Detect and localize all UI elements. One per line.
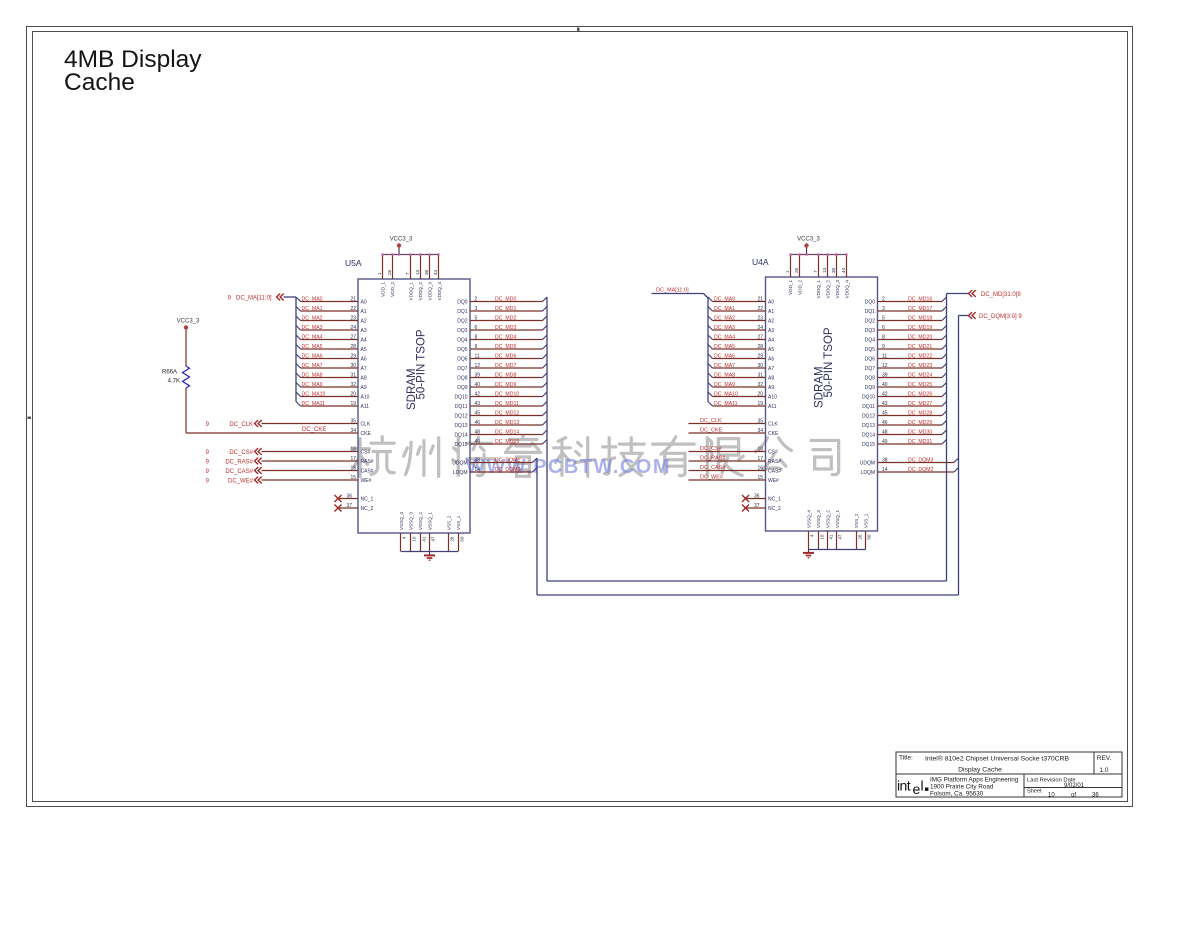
svg-text:VSSQ_4: VSSQ_4 xyxy=(399,512,404,530)
svg-text:DQ6: DQ6 xyxy=(865,357,876,363)
svg-text:VSSQ_2: VSSQ_2 xyxy=(825,510,830,528)
svg-text:2: 2 xyxy=(882,296,885,302)
svg-text:VDDQ_2: VDDQ_2 xyxy=(825,280,830,299)
svg-text:3: 3 xyxy=(475,306,478,312)
svg-text:35: 35 xyxy=(350,418,356,424)
svg-text:l: l xyxy=(921,778,924,794)
svg-text:CAS#: CAS# xyxy=(361,469,374,475)
svg-text:DC_MD31: DC_MD31 xyxy=(908,439,932,445)
svg-text:VSS_2: VSS_2 xyxy=(446,515,451,530)
wire U4A pin 29 A6 net DC_MA6 xyxy=(708,353,766,359)
wire U4A pin 21 A0 net DC_MA0 xyxy=(708,296,766,302)
svg-text:7: 7 xyxy=(405,272,410,275)
svg-text:DC_MA2: DC_MA2 xyxy=(714,315,735,321)
power VCC3_3 U4A xyxy=(797,237,820,255)
svg-text:Display Cache: Display Cache xyxy=(958,767,1002,774)
off-page connector DC_WE# xyxy=(206,477,262,485)
wire U5A pin 24 A3 net DC_MA3 xyxy=(296,325,358,331)
wire U5A pin 43 DQ11 net DC_MD11 xyxy=(470,401,547,407)
svg-text:DC_MA2: DC_MA2 xyxy=(302,315,323,321)
svg-text:Folsom, Ca. 95630: Folsom, Ca. 95630 xyxy=(930,791,984,798)
wire U5A pin 5 DQ2 net DC_MD2 xyxy=(470,315,547,321)
svg-text:DC_RAS#: DC_RAS# xyxy=(225,459,253,465)
wire U5A pin 45 DQ12 net DC_MD12 xyxy=(470,410,547,416)
svg-text:DC_DQM3: DC_DQM3 xyxy=(908,457,933,463)
wire U4A pin 39 DQ8 net DC_MD24 xyxy=(878,372,947,378)
svg-text:45: 45 xyxy=(882,410,888,416)
svg-text:A1: A1 xyxy=(361,309,367,315)
no-connect U5A pin 36 NC_1 xyxy=(335,493,359,502)
svg-text:VDDQ_2: VDDQ_2 xyxy=(418,282,423,301)
power VCC3_3 U5A xyxy=(390,237,413,255)
svg-text:16: 16 xyxy=(757,465,763,471)
svg-text:DC_WE#: DC_WE# xyxy=(700,475,724,481)
wire U5A pin 21 A0 net DC_MA0 xyxy=(296,296,358,302)
svg-text:DC_MD5: DC_MD5 xyxy=(495,344,516,350)
svg-text:38: 38 xyxy=(882,457,888,463)
svg-text:1: 1 xyxy=(377,272,382,275)
svg-text:13: 13 xyxy=(822,267,827,273)
svg-text:15: 15 xyxy=(757,475,763,481)
svg-text:VSS_2: VSS_2 xyxy=(854,513,859,528)
svg-text:DQ12: DQ12 xyxy=(454,414,467,420)
svg-text:NC_2: NC_2 xyxy=(361,506,374,512)
svg-text:Cache: Cache xyxy=(64,69,135,96)
svg-text:DC_MD4: DC_MD4 xyxy=(495,334,516,340)
svg-text:DC_MD16: DC_MD16 xyxy=(908,296,932,302)
svg-text:36: 36 xyxy=(346,493,352,499)
svg-text:38: 38 xyxy=(475,457,481,463)
wire U5A pin 18 net DC_CS# xyxy=(262,446,359,452)
wire U4A pin 8 DQ4 net DC_MD20 xyxy=(878,334,947,340)
svg-text:22: 22 xyxy=(350,306,356,312)
svg-text:VSSQ_1: VSSQ_1 xyxy=(427,512,432,530)
svg-text:DC_WE#: DC_WE# xyxy=(228,478,254,484)
svg-text:20: 20 xyxy=(757,391,763,397)
svg-text:1: 1 xyxy=(785,270,790,273)
svg-text:35: 35 xyxy=(757,418,763,424)
svg-text:A5: A5 xyxy=(768,347,774,353)
svg-text:17: 17 xyxy=(757,456,763,462)
wire U5A pin 29 A6 net DC_MA6 xyxy=(296,353,358,359)
svg-text:A9: A9 xyxy=(361,385,367,391)
svg-text:A6: A6 xyxy=(768,357,774,363)
svg-text:48: 48 xyxy=(475,429,481,435)
svg-text:DQ15: DQ15 xyxy=(454,442,467,448)
wire U5A pin 12 DQ7 net DC_MD7 xyxy=(470,363,547,369)
wire U5A pin 17 net DC_RAS# xyxy=(262,456,359,462)
svg-text:DC_MA5: DC_MA5 xyxy=(302,344,323,350)
svg-text:12: 12 xyxy=(882,363,888,369)
svg-text:RAS#: RAS# xyxy=(361,459,374,465)
svg-text:A5: A5 xyxy=(361,347,367,353)
svg-text:DC_MD30: DC_MD30 xyxy=(908,429,932,435)
svg-text:24: 24 xyxy=(757,325,763,331)
wire U5A pin 11 DQ6 net DC_MD6 xyxy=(470,353,547,359)
svg-text:DQ7: DQ7 xyxy=(865,366,876,372)
svg-text:DQ6: DQ6 xyxy=(457,357,468,363)
svg-text:26: 26 xyxy=(387,269,392,275)
svg-text:e: e xyxy=(913,781,921,797)
svg-text:DC_CAS#: DC_CAS# xyxy=(225,469,253,475)
svg-text:41: 41 xyxy=(422,536,427,542)
svg-text:VSSQ_3: VSSQ_3 xyxy=(816,510,821,528)
wire U5A pin 30 A7 net DC_MA7 xyxy=(296,363,358,369)
svg-text:DQ2: DQ2 xyxy=(865,319,876,325)
svg-text:VDDQ_4: VDDQ_4 xyxy=(437,282,442,301)
svg-text:LDQM: LDQM xyxy=(453,470,467,476)
svg-text:VDDQ_3: VDDQ_3 xyxy=(835,280,840,299)
svg-text:18: 18 xyxy=(350,446,356,452)
svg-text:VCC3_3: VCC3_3 xyxy=(177,319,200,325)
svg-text:50-PIN TSOP: 50-PIN TSOP xyxy=(823,327,835,397)
wire U4A pin 2 DQ0 net DC_MD16 xyxy=(878,296,947,302)
wire U4A pin 48 DQ14 net DC_MD30 xyxy=(878,429,947,435)
wire U5A pin 9 DQ5 net DC_MD5 xyxy=(470,344,547,350)
svg-text:DC_MD18: DC_MD18 xyxy=(908,315,932,321)
wire U5A pin 39 DQ8 net DC_MD8 xyxy=(470,372,547,378)
svg-text:DC_MD2: DC_MD2 xyxy=(495,315,516,321)
svg-text:19: 19 xyxy=(350,401,356,407)
svg-text:50: 50 xyxy=(460,536,465,542)
svg-text:14: 14 xyxy=(475,467,481,473)
svg-text:DC_MD24: DC_MD24 xyxy=(908,372,932,378)
svg-text:DC_MD1: DC_MD1 xyxy=(495,306,516,312)
bus DC_DQM U5A vertical+bottom run xyxy=(537,458,959,595)
svg-text:23: 23 xyxy=(757,315,763,321)
off-page connector DC_CS# xyxy=(206,448,262,456)
svg-text:CKE: CKE xyxy=(768,431,779,437)
svg-text:DC_MA4: DC_MA4 xyxy=(302,334,323,340)
svg-text:A11: A11 xyxy=(361,404,370,410)
svg-text:LDQM: LDQM xyxy=(861,470,875,476)
svg-text:DQ14: DQ14 xyxy=(862,433,875,439)
svg-text:A0: A0 xyxy=(768,300,774,306)
svg-text:18: 18 xyxy=(757,446,763,452)
bus DC_MA[11:0] to U5A xyxy=(295,297,297,402)
svg-text:DQ5: DQ5 xyxy=(457,347,468,353)
svg-text:DC_CKE: DC_CKE xyxy=(700,428,723,434)
svg-text:DC_MD22: DC_MD22 xyxy=(908,353,932,359)
svg-text:RAS#: RAS# xyxy=(768,459,781,465)
svg-text:DC_MD26: DC_MD26 xyxy=(908,391,932,397)
svg-text:32: 32 xyxy=(757,382,763,388)
svg-text:40: 40 xyxy=(882,382,888,388)
off-page connector DC_DQM[3:0] xyxy=(959,312,1023,320)
svg-text:47: 47 xyxy=(838,534,843,540)
svg-text:47: 47 xyxy=(431,536,436,542)
svg-text:31: 31 xyxy=(350,372,356,378)
svg-text:Sheet: Sheet xyxy=(1027,789,1042,795)
svg-text:DC_MA7: DC_MA7 xyxy=(714,363,735,369)
svg-text:43: 43 xyxy=(475,401,481,407)
svg-text:DQ13: DQ13 xyxy=(454,423,467,429)
svg-text:40: 40 xyxy=(475,382,481,388)
svg-text:A7: A7 xyxy=(361,366,367,372)
svg-text:15: 15 xyxy=(350,475,356,481)
svg-text:A0: A0 xyxy=(361,300,367,306)
svg-text:A4: A4 xyxy=(361,338,367,344)
svg-text:29: 29 xyxy=(350,353,356,359)
svg-text:of: of xyxy=(1071,793,1076,799)
svg-text:DC_CLK: DC_CLK xyxy=(700,418,722,424)
wire U5A pin 35 CLK net DC_CLK xyxy=(262,418,359,424)
svg-text:DC_MA[11:0]: DC_MA[11:0] xyxy=(656,288,689,294)
svg-text:A10: A10 xyxy=(361,395,370,401)
no-connect U4A pin 36 NC_1 xyxy=(742,493,766,502)
svg-text:17: 17 xyxy=(350,456,356,462)
svg-text:VCC3_3: VCC3_3 xyxy=(797,237,820,243)
svg-text:37: 37 xyxy=(346,503,352,509)
svg-text:DC_MD12: DC_MD12 xyxy=(495,410,519,416)
svg-text:28: 28 xyxy=(350,344,356,350)
wire U5A pin 20 A10 net DC_MA10 xyxy=(296,391,358,397)
svg-text:DC_CS#: DC_CS# xyxy=(700,446,723,452)
wire U4A pin 31 A8 net DC_MA8 xyxy=(708,372,766,378)
svg-text:DC_MD27: DC_MD27 xyxy=(908,401,932,407)
bus DC_DQM vertical at far right xyxy=(958,316,960,596)
wire U5A pin 14 LDQM net DC_DQM0 xyxy=(470,467,537,473)
svg-text:VSS_1: VSS_1 xyxy=(456,515,461,530)
wire U4A pin 49 DQ15 net DC_MD31 xyxy=(878,439,947,445)
svg-text:DC_MD19: DC_MD19 xyxy=(908,325,932,331)
svg-text:DC_CS#: DC_CS# xyxy=(229,450,253,456)
resistor R66A 4.7K xyxy=(162,366,190,388)
svg-text:DQ8: DQ8 xyxy=(865,376,876,382)
svg-text:NC_2: NC_2 xyxy=(768,506,781,512)
svg-text:A6: A6 xyxy=(361,357,367,363)
wire U4A pin 24 A3 net DC_MA3 xyxy=(708,325,766,331)
wire U4A pin 30 A7 net DC_MA7 xyxy=(708,363,766,369)
svg-text:A2: A2 xyxy=(361,319,367,325)
wire U5A pin 28 A5 net DC_MA5 xyxy=(296,344,358,350)
svg-text:3: 3 xyxy=(882,306,885,312)
svg-text:36: 36 xyxy=(754,493,760,499)
svg-text:CKE: CKE xyxy=(361,431,372,437)
svg-text:DQ12: DQ12 xyxy=(862,414,875,420)
wire VDD/VDDQ bus U4A xyxy=(785,253,848,277)
svg-text:6: 6 xyxy=(882,325,885,331)
wire U5A pin 23 A2 net DC_MA2 xyxy=(296,315,358,321)
svg-text:DC_MD14: DC_MD14 xyxy=(495,429,519,435)
svg-text:DC_MA9: DC_MA9 xyxy=(714,382,735,388)
svg-text:48: 48 xyxy=(882,429,888,435)
svg-text:A1: A1 xyxy=(768,309,774,315)
sdram U4A xyxy=(752,257,878,531)
svg-text:5: 5 xyxy=(475,315,478,321)
wire VSS/VSSQ bus U4A xyxy=(809,531,872,550)
svg-text:DC_MA10: DC_MA10 xyxy=(302,391,326,397)
wire U4A pin 18 net DC_CS# xyxy=(689,446,766,452)
svg-text:16: 16 xyxy=(350,465,356,471)
svg-text:32: 32 xyxy=(350,382,356,388)
svg-text:9: 9 xyxy=(882,344,885,350)
svg-text:50-PIN TSOP: 50-PIN TSOP xyxy=(416,329,428,399)
wire U5A pin 32 A9 net DC_MA9 xyxy=(296,382,358,388)
svg-text:DQ1: DQ1 xyxy=(865,309,876,315)
svg-text:VSSQ_2: VSSQ_2 xyxy=(418,512,423,530)
wire U5A pin 38 UDQM net DC_DQM1 xyxy=(470,457,537,463)
svg-text:DC_DQM0: DC_DQM0 xyxy=(495,467,520,473)
svg-text:UDQM: UDQM xyxy=(452,461,467,467)
svg-text:31: 31 xyxy=(757,372,763,378)
svg-text:34: 34 xyxy=(350,428,356,434)
svg-text:21: 21 xyxy=(757,296,763,302)
off-page connector DC_RAS# xyxy=(206,458,262,466)
svg-text:DC_MD20: DC_MD20 xyxy=(908,334,932,340)
svg-text:IMG Platform Apps Engineering: IMG Platform Apps Engineering xyxy=(930,777,1019,784)
svg-text:14: 14 xyxy=(882,467,888,473)
wire U4A pin 42 DQ10 net DC_MD26 xyxy=(878,391,947,397)
svg-text:DC_MA10: DC_MA10 xyxy=(714,391,738,397)
svg-text:49: 49 xyxy=(882,439,888,445)
wire U4A pin 43 DQ11 net DC_MD27 xyxy=(878,401,947,407)
svg-text:DC_MD6: DC_MD6 xyxy=(495,353,516,359)
svg-text:42: 42 xyxy=(475,391,481,397)
svg-text:26: 26 xyxy=(450,536,455,542)
svg-text:11: 11 xyxy=(475,353,480,359)
svg-text:DC_DQM2: DC_DQM2 xyxy=(908,467,933,473)
wire U4A pin 17 net DC_RAS# xyxy=(689,456,766,462)
svg-text:DQ3: DQ3 xyxy=(865,328,876,334)
svg-text:DC_MA5: DC_MA5 xyxy=(714,344,735,350)
svg-text:21: 21 xyxy=(350,296,356,302)
wire U4A pin 6 DQ3 net DC_MD19 xyxy=(878,325,947,331)
svg-text:Intel® 810e2 Chipset Universal: Intel® 810e2 Chipset Universal Socke t37… xyxy=(925,755,1070,763)
bus DC_MD[15:0] U5A vertical+bottom run xyxy=(547,297,947,581)
svg-text:DC_DQM[3:0] 9: DC_DQM[3:0] 9 xyxy=(979,314,1022,320)
wire U4A pin 38 UDQM net DC_DQM3 xyxy=(878,457,959,463)
wire U4A pin 3 DQ1 net DC_MD17 xyxy=(878,306,947,312)
svg-text:41: 41 xyxy=(829,534,834,540)
bus DC_MA[11:0] to U4A xyxy=(652,288,709,402)
svg-text:VCC3_3: VCC3_3 xyxy=(390,237,413,243)
svg-text:DC_MD23: DC_MD23 xyxy=(908,363,932,369)
wire U5A pin 19 A11 net DC_MA11 xyxy=(296,401,358,407)
svg-text:WE#: WE# xyxy=(361,478,372,484)
intel logo xyxy=(897,778,928,798)
svg-text:29: 29 xyxy=(757,353,763,359)
svg-text:VSSQ_3: VSSQ_3 xyxy=(408,512,413,530)
svg-text:DQ5: DQ5 xyxy=(865,347,876,353)
wire U5A pin 27 A4 net DC_MA4 xyxy=(296,334,358,340)
svg-text:VDDQ_1: VDDQ_1 xyxy=(816,280,821,299)
svg-text:DQ11: DQ11 xyxy=(862,404,875,410)
svg-text:UDQM: UDQM xyxy=(860,461,875,467)
svg-text:DC_MD15: DC_MD15 xyxy=(495,439,519,445)
svg-text:DC_MD0: DC_MD0 xyxy=(495,296,516,302)
svg-text:DC_CLK: DC_CLK xyxy=(229,422,253,428)
svg-text:DQ3: DQ3 xyxy=(457,328,468,334)
svg-text:DQ7: DQ7 xyxy=(457,366,468,372)
svg-text:38: 38 xyxy=(424,269,429,275)
svg-text:DQ2: DQ2 xyxy=(457,319,468,325)
wire U5A pin 3 DQ1 net DC_MD1 xyxy=(470,306,547,312)
off-page connector DC_CLK xyxy=(206,420,262,428)
wire U4A pin 12 DQ7 net DC_MD23 xyxy=(878,363,947,369)
svg-text:DC_MD11: DC_MD11 xyxy=(495,401,519,407)
svg-text:VDD_1: VDD_1 xyxy=(380,282,385,297)
svg-text:DC_MA9: DC_MA9 xyxy=(302,382,323,388)
svg-text:38: 38 xyxy=(831,267,836,273)
svg-text:A3: A3 xyxy=(768,328,774,334)
svg-text:CLK: CLK xyxy=(768,422,778,428)
wire U5A pin 49 DQ15 net DC_MD15 xyxy=(470,439,547,445)
svg-text:11: 11 xyxy=(882,353,887,359)
svg-text:Title:: Title: xyxy=(899,755,913,762)
svg-text:46: 46 xyxy=(882,420,888,426)
svg-text:DC_MD17: DC_MD17 xyxy=(908,306,932,312)
wire U4A pin 14 LDQM net DC_DQM2 xyxy=(878,467,959,473)
title block xyxy=(896,752,1122,797)
wire U4A pin 16 net DC_CAS# xyxy=(689,465,766,471)
svg-text:DC_MD[31:0]9: DC_MD[31:0]9 xyxy=(981,292,1021,298)
svg-text:DQ13: DQ13 xyxy=(862,423,875,429)
svg-text:DQ9: DQ9 xyxy=(865,385,876,391)
ground U5A xyxy=(424,552,435,561)
svg-text:10: 10 xyxy=(820,534,825,540)
off-page connector DC_CAS# xyxy=(206,467,262,475)
svg-text:43: 43 xyxy=(882,401,888,407)
svg-text:46: 46 xyxy=(475,420,481,426)
svg-text:A8: A8 xyxy=(361,376,367,382)
svg-text:A3: A3 xyxy=(361,328,367,334)
wire U5A pin 40 DQ9 net DC_MD9 xyxy=(470,382,547,388)
svg-text:DC_MA11: DC_MA11 xyxy=(714,401,738,407)
svg-text:26: 26 xyxy=(858,534,863,540)
off-page connector DC_MD[31:0] xyxy=(947,290,1022,298)
svg-text:DC_MA3: DC_MA3 xyxy=(714,325,735,331)
svg-text:8: 8 xyxy=(882,334,885,340)
svg-text:DC_MD25: DC_MD25 xyxy=(908,382,932,388)
svg-text:DC_MA1: DC_MA1 xyxy=(714,306,735,312)
svg-text:NC_1: NC_1 xyxy=(768,497,781,503)
svg-text:A10: A10 xyxy=(768,395,777,401)
wire U5A pin 48 DQ14 net DC_MD14 xyxy=(470,429,547,435)
svg-text:2: 2 xyxy=(475,296,478,302)
svg-text:DQ14: DQ14 xyxy=(454,433,467,439)
svg-text:50: 50 xyxy=(867,534,872,540)
svg-text:30: 30 xyxy=(757,363,763,369)
svg-text:DQ10: DQ10 xyxy=(454,395,467,401)
svg-text:DC_MD8: DC_MD8 xyxy=(495,372,516,378)
svg-text:CS#: CS# xyxy=(768,450,778,456)
svg-text:DC_MA3: DC_MA3 xyxy=(302,325,323,331)
svg-text:7: 7 xyxy=(813,270,818,273)
svg-text:A8: A8 xyxy=(768,376,774,382)
bus DC_MD[31:16] vertical at U4A right xyxy=(946,294,948,582)
svg-text:44: 44 xyxy=(841,267,846,273)
svg-text:DC_MA0: DC_MA0 xyxy=(714,296,735,302)
svg-text:DQ11: DQ11 xyxy=(455,404,468,410)
svg-text:U4A: U4A xyxy=(752,257,769,267)
svg-text:VDD_2: VDD_2 xyxy=(390,282,395,297)
no-connect U5A pin 37 NC_2 xyxy=(335,503,359,512)
svg-text:DQ9: DQ9 xyxy=(457,385,468,391)
svg-text:30: 30 xyxy=(350,363,356,369)
svg-text:VDD_1: VDD_1 xyxy=(788,280,793,295)
svg-text:VDD_2: VDD_2 xyxy=(797,280,802,295)
svg-text:DC_MA11: DC_MA11 xyxy=(302,401,326,407)
svg-text:DC_DQM1: DC_DQM1 xyxy=(495,457,520,463)
power VCC3_3 (pullup) xyxy=(177,319,200,330)
wire U5A pin 46 DQ13 net DC_MD13 xyxy=(470,420,547,426)
svg-text:24: 24 xyxy=(350,325,356,331)
wire U4A pin 46 DQ13 net DC_MD29 xyxy=(878,420,947,426)
svg-text:DQ4: DQ4 xyxy=(865,338,876,344)
svg-text:DC_MA8: DC_MA8 xyxy=(302,372,323,378)
svg-text:1.0: 1.0 xyxy=(1099,767,1108,774)
